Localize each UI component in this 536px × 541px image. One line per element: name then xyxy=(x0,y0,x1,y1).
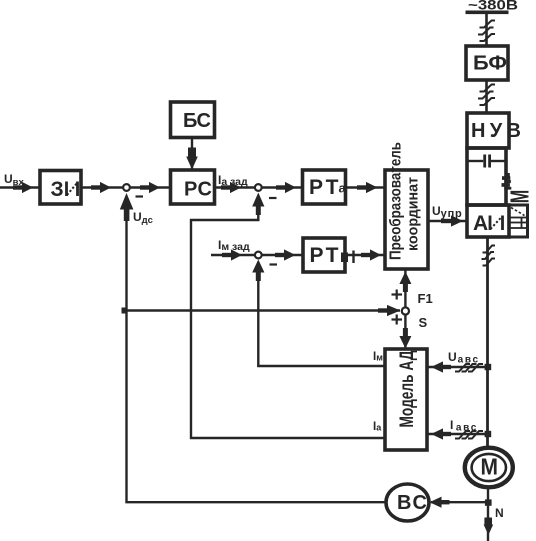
plus sign lower node4 xyxy=(392,315,403,325)
wire Im feedback path xyxy=(258,278,385,366)
svg-text:Iавс: Iавс xyxy=(450,418,478,434)
wire BF to NUV xyxy=(485,80,488,113)
block RTa (current regulator a) xyxy=(303,170,346,204)
svg-text:М: М xyxy=(505,190,535,204)
arrow ZI-node1 xyxy=(91,182,111,193)
svg-text:З: З xyxy=(51,178,64,201)
wire node2 to RTa xyxy=(261,186,302,188)
svg-text:НУВ: НУВ xyxy=(471,120,521,142)
arrow omega into node4 xyxy=(378,305,401,316)
svg-text:а: а xyxy=(339,181,347,196)
svg-text:S: S xyxy=(419,315,428,330)
arrow RTa-PK xyxy=(357,182,378,193)
three-phase marks supply wire xyxy=(478,21,495,42)
block BF (input filter) xyxy=(466,46,508,80)
arrow node1-RS xyxy=(140,182,160,193)
arrow RS-node2 xyxy=(221,182,241,193)
three-phase marks Uabc xyxy=(455,364,483,372)
svg-text:РТ: РТ xyxy=(309,176,339,199)
minus sign node1 xyxy=(136,195,144,197)
arrow N down xyxy=(484,518,494,536)
svg-text:Uупр: Uупр xyxy=(432,204,463,220)
block BS xyxy=(171,102,215,138)
arrow into VS xyxy=(430,497,450,508)
svg-text:Uавс: Uавс xyxy=(448,350,480,366)
svg-text:Uдс: Uдс xyxy=(133,210,153,226)
junction dot Iabc xyxy=(485,431,492,437)
svg-text:РС: РС xyxy=(184,179,212,201)
block PK (coordinate converter) xyxy=(385,170,428,269)
wire RT to PK xyxy=(345,254,385,256)
arrow RT-PK xyxy=(361,249,381,260)
svg-text:А: А xyxy=(473,212,488,235)
node sum2 xyxy=(255,184,262,191)
junction dot Uabc xyxy=(485,364,492,370)
svg-text:Uвх: Uвх xyxy=(4,172,25,188)
svg-text:F1: F1 xyxy=(418,291,433,306)
node sum1 xyxy=(123,184,130,191)
wire ZI to node1 xyxy=(81,186,123,188)
arrow Iabc into model xyxy=(431,428,451,439)
wire node1 to RS xyxy=(130,186,171,188)
arrow Uabc into model xyxy=(431,361,451,372)
arrow feedback into node2 xyxy=(252,193,264,216)
arrow input xyxy=(13,182,33,193)
svg-text:Iм: Iм xyxy=(373,351,383,363)
wire RTa to PK xyxy=(346,186,386,188)
capacitor C in DC link xyxy=(468,155,505,168)
block NUV (controlled rectifier) xyxy=(467,113,509,148)
arrow BS to RS xyxy=(186,137,198,170)
wire supply to BF xyxy=(485,13,488,47)
wire speed feedback vertical xyxy=(127,211,385,502)
wire PK to AI (Uupr) xyxy=(428,220,467,222)
svg-text:БФ: БФ xyxy=(473,53,507,75)
minus sign node3 xyxy=(270,263,278,265)
svg-text:Преобразователь: Преобразователь xyxy=(388,142,405,260)
wire AI to motor xyxy=(486,237,489,448)
block Model AD xyxy=(385,349,427,450)
wire Uabc measurement xyxy=(427,366,488,368)
junction dot motor bottom xyxy=(485,499,492,505)
minus sign node2 xyxy=(269,197,277,199)
svg-text:Iм зад: Iм зад xyxy=(218,238,250,253)
three-phase marks AI-motor wire xyxy=(482,246,496,266)
wire node4 up to PK with arrow xyxy=(399,269,411,308)
wire motor to VS xyxy=(431,501,488,503)
wire node3 to RT xyxy=(261,254,303,256)
arrow feedback into node1 xyxy=(120,193,134,221)
speed sensor VS xyxy=(386,484,429,521)
svg-text:Iа зад: Iа зад xyxy=(218,173,248,188)
svg-text:координат: координат xyxy=(405,177,422,251)
wire input Uvx xyxy=(0,186,41,188)
arrow PK-AI xyxy=(441,215,463,226)
svg-text:РТ: РТ xyxy=(310,244,339,267)
svg-text:N: N xyxy=(495,506,504,520)
svg-text:Iа: Iа xyxy=(373,421,382,433)
arrow node2-RTa xyxy=(276,182,296,193)
arrow node3-RT xyxy=(275,249,296,260)
block ZI (intensity setter) xyxy=(40,171,81,205)
svg-text:БС: БС xyxy=(183,110,211,132)
inverter sub-box with AC symbol xyxy=(509,205,528,237)
svg-text:ВС: ВС xyxy=(397,492,427,514)
inductor L on DC link right side xyxy=(502,173,512,190)
three-phase marks BF-NUV wire xyxy=(478,85,495,106)
wire node4 down to model with arrow xyxy=(399,315,411,350)
wire Iabc measurement xyxy=(427,433,488,435)
block RT (flux current regulator) xyxy=(303,238,345,272)
plus sign upper node4 xyxy=(392,290,403,300)
subscript blob at RT right edge xyxy=(341,253,348,263)
wire motor down xyxy=(487,486,489,541)
tick mark on RT output wire xyxy=(352,251,354,264)
motor M xyxy=(465,448,513,488)
junction dot omega line xyxy=(122,308,128,314)
wire Im zad input xyxy=(211,254,255,256)
node sum3 xyxy=(255,252,262,259)
wire Ia feedback path xyxy=(191,211,385,438)
block RS (speed regulator) xyxy=(171,170,215,204)
three-phase marks Iabc xyxy=(455,431,483,439)
block AI (autonomous inverter) xyxy=(467,205,509,237)
node sum4 (F1/S) xyxy=(402,307,409,314)
block DC-link filter box xyxy=(467,148,506,205)
arrow feedback into node3 xyxy=(252,260,264,282)
wire RS to node2 xyxy=(215,186,256,188)
svg-text:М: М xyxy=(481,454,499,480)
supply bus bar xyxy=(466,11,509,15)
svg-text:Модель АД: Модель АД xyxy=(397,350,418,427)
arrow Im zad xyxy=(222,249,242,260)
wire omega line horizontal xyxy=(122,309,400,311)
